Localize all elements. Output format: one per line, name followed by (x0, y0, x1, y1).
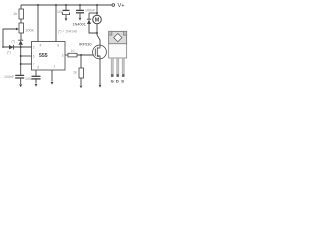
ground C2 (35, 80, 37, 84)
svg-text:100n: 100n (25, 77, 33, 81)
wire P1 to D2 (20, 33, 22, 40)
svg-text:(*): (*) (7, 51, 11, 55)
svg-text:(*): (*) (12, 40, 16, 44)
capacitor C3 10u (63, 9, 70, 11)
wire pin5 down (35, 70, 37, 76)
wire source to ground (99, 59, 101, 85)
ground C3 (65, 15, 67, 18)
svg-text:5: 5 (37, 65, 39, 69)
capacitor C4 100nF (76, 9, 84, 11)
terminal V+ (112, 4, 115, 7)
capacitor C1 100nF (15, 74, 24, 76)
svg-text:1: 1 (54, 64, 56, 68)
wire C4 drop (79, 5, 81, 10)
svg-text:100k: 100k (25, 28, 34, 33)
wire flyback bottom (89, 24, 97, 33)
svg-text:4: 4 (39, 43, 41, 47)
svg-text:M: M (95, 18, 100, 24)
svg-text:555: 555 (39, 53, 48, 59)
wire V+ rail (21, 4, 112, 6)
motor M1 (93, 15, 102, 24)
ground R3 (80, 78, 82, 85)
wire pin8 to rail (55, 5, 57, 42)
wire pin1 down (51, 70, 53, 82)
ground C1 (20, 79, 22, 84)
wire D2 to node (20, 45, 22, 47)
wire rail to R1 (20, 5, 22, 9)
svg-text:100nF: 100nF (85, 9, 96, 13)
svg-text:2: 2 (33, 45, 35, 49)
wire junction to R3 (80, 55, 82, 68)
resistor R3 1k (79, 68, 84, 78)
wire pin4 to rail (37, 5, 39, 42)
wire pin6 stub (21, 55, 32, 57)
svg-text:3: 3 (62, 53, 64, 57)
wire flyback top (89, 12, 97, 14)
diode D3 1N4001 (87, 18, 91, 20)
svg-text:V+: V+ (118, 3, 125, 9)
node vertical 2/6/7 (20, 47, 22, 75)
svg-text:10: 10 (71, 49, 75, 53)
svg-text:10µ: 10µ (57, 10, 63, 14)
transistor Q1 IRF530 (93, 45, 107, 59)
svg-text:6: 6 (33, 54, 35, 58)
svg-text:(*) = 1N4148: (*) = 1N4148 (58, 29, 77, 33)
svg-text:D: D (116, 78, 119, 83)
resistor R1 1k (19, 9, 24, 19)
wiper arrow (16, 28, 19, 31)
svg-text:1k: 1k (13, 11, 17, 16)
wire motor to drain (96, 24, 98, 35)
svg-text:IRF530: IRF530 (79, 43, 91, 47)
TO-220 package (109, 31, 127, 76)
wire R1 to P1 (20, 19, 22, 23)
ground C4 (79, 13, 81, 17)
svg-text:S: S (121, 78, 124, 83)
capacitor C2 100n (32, 75, 41, 77)
svg-text:G: G (111, 78, 114, 83)
svg-text:8: 8 (57, 43, 59, 47)
svg-text:1N4001: 1N4001 (73, 23, 86, 27)
wire C3 drop (65, 5, 67, 10)
node dots (37, 4, 39, 6)
ground pin1 (51, 82, 54, 85)
node gate junction (80, 54, 82, 56)
resistor R2 10 (68, 53, 77, 57)
wire pin7 stub (21, 63, 32, 65)
svg-text:7: 7 (33, 62, 35, 66)
wire pin2 row (3, 46, 32, 48)
wire P1 wiper (3, 29, 18, 47)
svg-text:100nF: 100nF (4, 75, 15, 79)
diode D1 (9, 45, 13, 50)
wire motor drop (96, 5, 98, 15)
diode D2 (18, 39, 23, 41)
svg-text:1k: 1k (73, 71, 77, 75)
potentiometer P1 100k (19, 23, 24, 33)
wire R2 to gate (77, 54, 94, 56)
op-amp U1 555 box (32, 42, 66, 71)
wire pin3 out (65, 54, 68, 56)
